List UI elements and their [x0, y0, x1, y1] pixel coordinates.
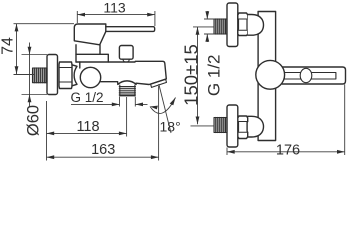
wall pipe bottom (right view): [214, 118, 227, 133]
wall nut left view: [59, 62, 72, 89]
svg-text:163: 163: [91, 142, 115, 158]
arrow 176 right: [337, 150, 345, 154]
arrow angle arc left: [150, 106, 158, 110]
diverter knob left view: [119, 46, 133, 62]
dim 163 line: [47, 156, 159, 158]
dim 150+-15 line: [197, 27, 199, 124]
18 deg leader line: [159, 84, 171, 133]
handle cap left view: [74, 24, 106, 45]
svg-text:G 1/2: G 1/2: [71, 90, 104, 105]
arrow G12 left-pointing-right: [112, 103, 120, 107]
cartridge dome circle (right view): [256, 60, 285, 89]
arrow O60 bottom: [28, 95, 32, 103]
svg-text:113: 113: [103, 0, 126, 16]
arrow 163 right: [151, 155, 159, 159]
cartridge collar left view: [76, 54, 108, 62]
arrow 113 right: [147, 13, 155, 17]
arrow 74 bottom: [15, 66, 19, 74]
dim G 1/2 right extension lines: [204, 19, 215, 34]
arrow O60 top: [28, 47, 32, 55]
arrow angle arc right: [170, 98, 176, 106]
escutcheon flange left view: [47, 55, 58, 95]
18 deg arc: [150, 98, 176, 114]
dim O60 line: [29, 43, 31, 107]
union cone left view: [72, 65, 77, 86]
dim 118 line: [47, 132, 127, 134]
valve circle left view: [80, 67, 100, 87]
nut top (right view): [238, 13, 248, 36]
svg-text:150±15: 150±15: [180, 44, 201, 106]
wall plane extension line left view: [46, 101, 48, 161]
arrow 118 left: [47, 132, 55, 136]
arrow G12 right view bottom: [205, 34, 209, 42]
dim G 1/2 left line segments: [71, 103, 148, 105]
escutcheon bottom (right view): [227, 105, 238, 147]
spout tip extension line left view: [158, 86, 160, 161]
wall pipe left view (threaded nipple): [33, 68, 48, 83]
dim 176 extension lines: [227, 85, 345, 156]
arrow 74 top: [15, 24, 19, 32]
shower outlet thread left view: [119, 85, 135, 96]
dim 118 extension line right: [126, 97, 128, 137]
dim 74 line: [16, 24, 18, 74]
dim 74 extension lines: [14, 24, 75, 75]
svg-text:Ø60: Ø60: [25, 105, 43, 136]
lever bar left view: [106, 27, 155, 32]
svg-text:176: 176: [276, 143, 300, 159]
arrowheads: [15, 11, 345, 159]
dim G 1/2 left extension lines: [120, 97, 136, 107]
body column (right view): [258, 12, 276, 141]
dim G 1/2 right line segments: [206, 11, 208, 42]
body front face left view: [79, 62, 81, 68]
union bulge bottom (right view): [248, 116, 264, 137]
escutcheon top (right view): [227, 3, 238, 47]
dim O60 extension lines: [22, 55, 48, 95]
dim 176 line: [227, 151, 345, 153]
shower outlet dome left view: [118, 81, 136, 85]
dim 113 line: [77, 14, 155, 16]
svg-text:74: 74: [0, 37, 17, 55]
union bulge top (right view): [248, 15, 264, 36]
aerator ring at spout tip left view: [151, 79, 167, 87]
svg-text:118: 118: [76, 119, 99, 135]
svg-text:G 1/2: G 1/2: [204, 55, 223, 97]
arrow G12 right-pointing-left: [135, 103, 143, 107]
arrow 113 left: [77, 13, 85, 17]
svg-text:18°: 18°: [160, 119, 181, 135]
cartridge neck left view: [76, 45, 100, 62]
wall pipe top (right view): [214, 19, 227, 34]
arrow 176 left: [227, 150, 235, 154]
arrow 150 top: [196, 27, 200, 35]
arrow G12 right view top: [205, 11, 209, 19]
arrow 150 bottom: [196, 117, 200, 125]
arrow 163 left: [47, 155, 55, 159]
lever from above (right view): [282, 67, 346, 84]
body outline and spout left view: [76, 61, 166, 84]
dim 150 centerline extensions: [191, 27, 215, 126]
nut bottom (right view): [238, 116, 248, 139]
dim 113 extension lines: [77, 11, 155, 26]
arrow 118 right: [119, 132, 127, 136]
